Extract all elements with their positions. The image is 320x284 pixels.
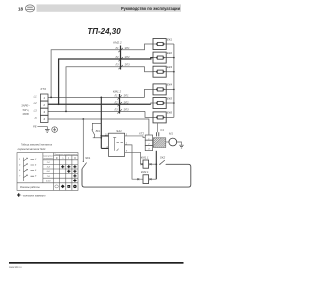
svg-text:8: 8: [35, 176, 37, 178]
wire row4 N from XT3: [48, 119, 149, 135]
wire N-bus vertical: [173, 44, 175, 117]
svg-text:ЕК1: ЕК1: [167, 37, 173, 41]
wire SA1 pin7 down to coil KM1.1: [125, 152, 143, 164]
svg-text:Таблица замыканий контактов: Таблица замыканий контактов: [21, 142, 52, 146]
svg-text:ЭП1: ЭП1: [124, 94, 130, 98]
svg-text:ЭП3: ЭП3: [125, 63, 131, 67]
coil KM2.1: [143, 175, 149, 184]
svg-text:380В: 380В: [22, 112, 28, 116]
header grey bar: [37, 4, 182, 11]
svg-text:ЭП1: ЭП1: [125, 46, 131, 50]
motor M1: [169, 138, 177, 146]
svg-text:ВК1: ВК1: [96, 129, 101, 133]
table position symbols: [56, 156, 76, 160]
svg-text:КМ1.2: КМ1.2: [113, 89, 122, 93]
svg-text:L3: L3: [34, 108, 37, 112]
wire coil KM1.1 right to bus: [149, 163, 157, 165]
ground PE earth symbol: [45, 130, 50, 133]
svg-text:SK1: SK1: [85, 156, 91, 160]
thermostat BK1 loop on bus: [92, 123, 101, 138]
svg-text:N: N: [35, 116, 37, 120]
note contact closed: [17, 193, 20, 196]
svg-text:ЕК2: ЕК2: [167, 51, 173, 55]
svg-text:ТП-24,30: ТП-24,30: [87, 27, 121, 36]
svg-text:ЕК6: ЕК6: [167, 111, 173, 115]
svg-text:КМ1.1: КМ1.1: [141, 155, 149, 159]
motor winding block hatched: [153, 138, 166, 148]
svg-text:L1: L1: [34, 94, 37, 98]
wire bus L1 to SA1 pins 10 and 4: [101, 97, 108, 148]
svg-text:7-8: 7-8: [47, 176, 51, 178]
svg-text:ЭП2: ЭП2: [125, 55, 131, 59]
svg-text:ЕК5: ЕК5: [167, 96, 173, 100]
svg-text:3: 3: [19, 164, 21, 166]
svg-text:- контакт замкнут: - контакт замкнут: [22, 194, 47, 197]
wire N-bus stubs to EK boxes: [166, 44, 174, 117]
wire row3 step down to EK6: [145, 111, 153, 117]
svg-text:☼: ☼: [61, 156, 64, 160]
svg-text:I: I: [68, 156, 69, 160]
thermal switch SK1: [82, 119, 84, 161]
heater EK4: [153, 84, 166, 95]
wire M1 to winding block: [166, 141, 169, 143]
svg-text:С1: С1: [160, 128, 164, 132]
switch diagram in table left cell: [24, 158, 35, 181]
table row labels: [46, 162, 51, 182]
svg-text:2: 2: [42, 103, 45, 107]
svg-text:9-10: 9-10: [46, 180, 51, 182]
svg-text:6: 6: [35, 170, 37, 172]
contactor contacts KM1.2: [113, 89, 129, 113]
svg-text:3-4: 3-4: [47, 166, 51, 169]
svg-text:1-2: 1-2: [47, 162, 51, 164]
svg-text:переключателя SA1: переключателя SA1: [18, 147, 46, 151]
wire coil KM2.1 right to bus: [149, 178, 157, 180]
svg-text:ЭП3: ЭП3: [124, 108, 130, 112]
svg-text:4: 4: [35, 163, 37, 166]
header logo: [25, 5, 34, 12]
svg-text:Л2: Л2: [113, 100, 118, 104]
heater EK6: [153, 112, 166, 123]
wire loop3 L3 riser and run to EK3: [66, 67, 153, 112]
svg-text:SA1: SA1: [116, 129, 122, 133]
heater EK3: [153, 66, 166, 77]
ground circled earth symbol: [52, 127, 58, 133]
pin labels L1 L2 L3 N: [33, 94, 37, 128]
svg-text:18: 18: [18, 7, 24, 12]
svg-text:Режимы работы: Режимы работы: [20, 186, 40, 189]
svg-text:контакты: контакты: [43, 158, 53, 160]
wire SA1 pin3 to XT2: [125, 136, 146, 138]
wire row3 L3 from XT3: [48, 110, 145, 112]
svg-text:1: 1: [19, 159, 21, 161]
coil KM1.1: [143, 160, 149, 168]
svg-text:ЭП2: ЭП2: [124, 100, 130, 104]
wire row1 step up to EK4: [145, 89, 154, 97]
terminal block XT2: [145, 135, 152, 151]
svg-text:ХТ3: ХТ3: [39, 87, 46, 91]
wire loop2 L2 bold riser and run to EK2: [59, 58, 153, 105]
contactor contacts KM2.2: [113, 41, 130, 70]
svg-text:www.tdm.ru: www.tdm.ru: [9, 266, 22, 269]
svg-text:2: 2: [34, 159, 37, 161]
svg-text:1: 1: [43, 96, 45, 100]
junction dots on rows: [50, 57, 175, 120]
switch SA1 inner symbol: [113, 137, 123, 151]
svg-text:PE: PE: [33, 125, 37, 129]
capacitor C1: [157, 132, 159, 136]
svg-text:ЕК4: ЕК4: [167, 83, 173, 87]
wire SK1 down to bottom loop: [82, 164, 191, 187]
svg-text:SK2: SK2: [160, 156, 166, 160]
wire SA1 pin2 down to coil KM2.1: [125, 145, 143, 179]
coil common bus: [155, 151, 157, 179]
svg-text:5-6: 5-6: [47, 171, 51, 173]
svg-text:КМ2.1: КМ2.1: [141, 170, 149, 174]
switch SA1 box: [109, 133, 125, 156]
wire row2 L2 bold from XT3: [48, 103, 151, 105]
svg-text:ЕК3: ЕК3: [167, 65, 173, 69]
PE wire: [37, 127, 47, 130]
svg-text:Л1: Л1: [113, 94, 118, 98]
svg-text:Л3: Л3: [113, 108, 118, 112]
wire from EK6 bottom to capacitor C1: [156, 123, 158, 132]
wire loop1 L1 riser and top run to EK1: [51, 44, 153, 97]
table closure marks: [61, 165, 76, 182]
svg-text:0: 0: [56, 156, 58, 160]
svg-text:50Гц: 50Гц: [23, 108, 29, 112]
heater EK1: [153, 39, 166, 50]
wire row1 L1 from XT3: [48, 96, 145, 98]
wire row2 step to EK5: [151, 103, 153, 104]
ground at motor: [179, 145, 184, 148]
wire M1 to ground: [177, 142, 182, 145]
heater EK2: [153, 52, 166, 63]
terminal block XT3: [40, 94, 48, 122]
svg-text:5: 5: [19, 170, 21, 172]
svg-text:3: 3: [43, 110, 45, 114]
SA1 pin numbers: [105, 133, 128, 152]
svg-text:4: 4: [43, 117, 45, 121]
svg-text:Л2: Л2: [114, 55, 119, 59]
heater EK5: [153, 98, 166, 109]
svg-text:L2: L2: [34, 101, 37, 105]
pin cross marks at coils: [137, 163, 151, 180]
svg-text:КМ2.2: КМ2.2: [113, 41, 122, 45]
svg-text:3NPE~: 3NPE~: [21, 104, 30, 108]
svg-text:Руководство по эксплуатации: Руководство по эксплуатации: [121, 6, 180, 11]
svg-text:7: 7: [19, 176, 21, 178]
thermal switch SK2: [159, 164, 160, 165]
supply marking 3NPE 380V 50Hz: [21, 104, 30, 116]
svg-text:ХТ2: ХТ2: [138, 131, 145, 135]
svg-text:II: II: [74, 156, 76, 160]
svg-text:М1: М1: [169, 132, 173, 136]
footer rule: [9, 262, 184, 264]
svg-text:Л1: Л1: [114, 46, 119, 50]
table grid: [17, 153, 78, 191]
svg-text:Л3: Л3: [114, 63, 119, 67]
